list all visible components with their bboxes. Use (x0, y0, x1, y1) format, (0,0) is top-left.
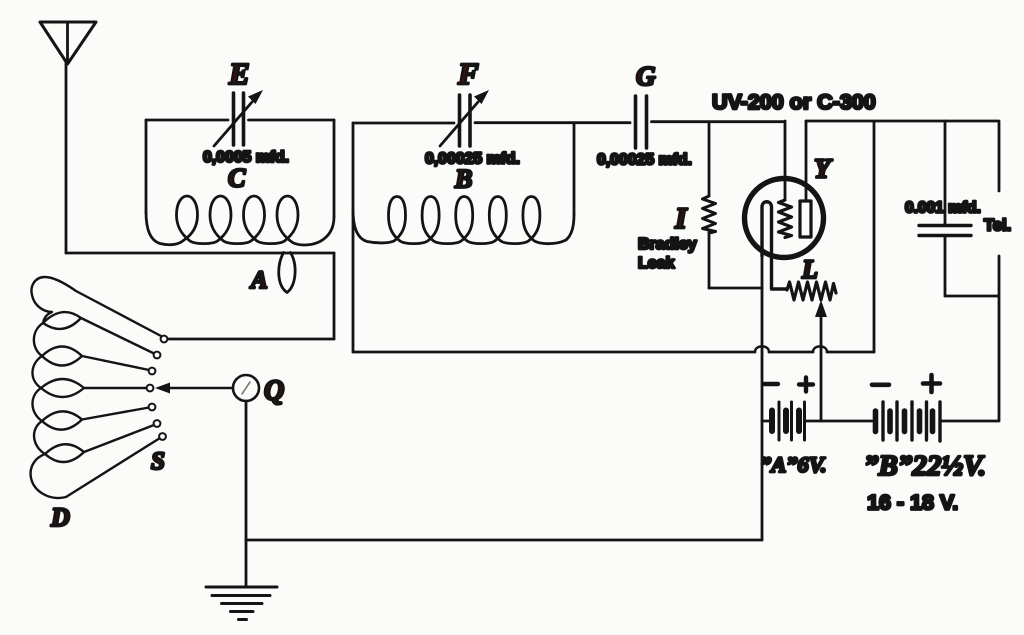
svg-text:Y: Y (814, 154, 833, 184)
envelope (745, 179, 824, 258)
plate (800, 201, 811, 237)
rheostat L (787, 282, 836, 421)
capacitor E (variable) (214, 90, 263, 146)
coil B (353, 197, 574, 244)
svg-text:16 - 18 V.: 16 - 18 V. (867, 491, 958, 515)
svg-text:0,00025 mfd.: 0,00025 mfd. (425, 151, 520, 168)
wire box B bottom with crossover hops (353, 351, 874, 354)
capacitor G (grid condenser) (636, 96, 647, 148)
box B tuned circuit (353, 122, 874, 352)
wire down from coupler (333, 253, 336, 339)
svg-text:UV-200 or C-300: UV-200 or C-300 (712, 90, 876, 114)
svg-text:B: B (454, 165, 472, 194)
tube Y (UV-200 or C-300) (745, 121, 824, 289)
svg-text:0.001 mfd.: 0.001 mfd. (905, 200, 981, 217)
coil C (146, 196, 334, 245)
svg-text:Q: Q (264, 376, 284, 407)
telephone capacitor 0.001 mfd (919, 121, 971, 296)
wire B+ branch down (873, 121, 876, 352)
wire B+ to battery (941, 296, 999, 421)
wire box B left (352, 123, 355, 352)
svg-text:0,00025 mfd.: 0,00025 mfd. (597, 152, 692, 169)
svg-text:C: C (228, 164, 246, 193)
svg-text:Leak: Leak (638, 255, 675, 272)
capacitor F (variable) (440, 90, 489, 146)
wire box B top (353, 122, 454, 125)
wire horizontal to coupler (66, 252, 334, 255)
svg-text:A: A (249, 267, 268, 294)
svg-text:L: L (801, 255, 818, 284)
ground (206, 587, 277, 620)
battery A 6V (762, 402, 872, 440)
node Q (233, 375, 259, 401)
battery A polarity (764, 378, 813, 392)
svg-text:E: E (228, 56, 250, 91)
wire box B right (573, 123, 576, 215)
svg-text:S: S (151, 448, 165, 475)
switch arm arrow to tap (155, 383, 233, 394)
wire box C top (146, 119, 228, 122)
grid leak I (703, 122, 763, 288)
filament (762, 202, 787, 289)
grid zigzag (779, 200, 792, 238)
top right bus (plate circuit) (806, 121, 999, 191)
telephones Tel. (945, 256, 999, 296)
svg-text:I: I (674, 202, 688, 235)
box C tuned circuit (146, 120, 334, 245)
coil D (31, 277, 161, 498)
antenna (40, 22, 96, 64)
battery B polarity (872, 375, 940, 392)
grid lead (784, 121, 787, 200)
wire antenna lead down (65, 63, 68, 253)
wire to top tap (168, 338, 334, 341)
svg-text:”B”22½V.: ”B”22½V. (864, 450, 986, 482)
wire bottom return (246, 539, 762, 542)
svg-text:G: G (636, 61, 656, 91)
wire Q to ground (245, 401, 248, 587)
plate lead (805, 121, 808, 201)
svg-text:”A”6V.: ”A”6V. (760, 452, 827, 477)
battery B 22.5V (876, 402, 941, 441)
filament / A- long vertical (761, 256, 764, 540)
svg-text:0,0005 mfd.: 0,0005 mfd. (203, 149, 289, 166)
wire box C right (333, 120, 336, 217)
tap contacts (147, 336, 168, 440)
svg-text:Tel.: Tel. (984, 217, 1011, 235)
svg-text:Bradley: Bradley (638, 236, 697, 253)
svg-text:D: D (50, 503, 70, 532)
wire box C left (145, 120, 148, 213)
svg-text:F: F (457, 56, 479, 91)
coil A (279, 253, 295, 293)
